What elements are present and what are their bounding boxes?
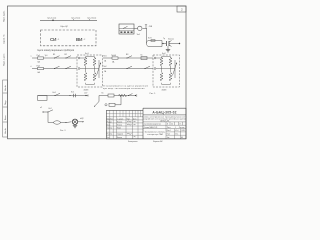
- svg-text:Кн: Кн: [102, 93, 104, 95]
- svg-text:Щит ЦС: Щит ЦС: [61, 26, 69, 28]
- svg-text:Тр: Тр: [163, 38, 165, 40]
- svg-text:В2: В2: [65, 54, 67, 56]
- svg-text:Кн2: Кн2: [49, 108, 52, 110]
- wire bell down to loop: [146, 29, 148, 44]
- svg-text:Подп.: Подп.: [5, 100, 7, 105]
- resistor R8: [169, 73, 172, 81]
- wire slant to lamp: [66, 121, 72, 124]
- junction dot B2: [66, 122, 67, 123]
- svg-text:Пр2: Пр2: [37, 65, 40, 67]
- svg-text:Пл1: Пл1: [103, 56, 107, 58]
- switch S7: [145, 68, 146, 69]
- resistor block BL2 dashed box: [153, 55, 180, 87]
- top rail wire: [32, 57, 77, 59]
- signature scribbles: [127, 121, 136, 137]
- right top rail wire: [103, 57, 153, 59]
- element M1: [108, 94, 114, 97]
- end arrow B: [82, 121, 84, 122]
- resistor R5: [160, 58, 163, 66]
- loop element: [38, 96, 48, 101]
- svg-text:Волков: Волков: [117, 137, 122, 139]
- svg-text:Иванов: Иванов: [117, 121, 122, 123]
- svg-text:Инв.1: Инв.1: [167, 130, 171, 132]
- svg-text:кЩУ: кЩУ: [80, 118, 84, 120]
- wire to lamp: [162, 43, 166, 45]
- svg-text:Пр.2: Пр.2: [167, 134, 170, 136]
- svg-text:02-4: 02-4: [175, 130, 178, 132]
- svg-text:Дата: Дата: [133, 118, 136, 120]
- lower branch circle: [105, 104, 107, 106]
- bus tick 3: [89, 19, 91, 20]
- svg-text:Цепи коммутационных приборов: Цепи коммутационных приборов: [38, 49, 75, 52]
- svg-text:Инв.№: Инв.№: [4, 128, 7, 134]
- end dot A: [85, 95, 86, 96]
- bus junction dot: [52, 20, 53, 21]
- wire box to bell: [134, 28, 137, 30]
- svg-text:В1: В1: [53, 54, 55, 56]
- svg-text:Пл2: Пл2: [103, 66, 107, 68]
- svg-text:Листов: Листов: [179, 127, 185, 129]
- change rows small dividers: [120, 110, 141, 116]
- parallel loop lower branch: [146, 41, 162, 47]
- svg-text:В3: В3: [126, 54, 128, 56]
- svg-text:Перв. прим.: Перв. прим.: [4, 10, 6, 22]
- left grid horizontals: [106, 114, 143, 135]
- lower branch junction: [121, 95, 122, 96]
- svg-text:Кн: Кн: [141, 54, 143, 56]
- ground stem: [167, 46, 169, 49]
- svg-text:2: 2: [181, 8, 183, 12]
- svg-text:Т.контр.: Т.контр.: [107, 128, 113, 130]
- end dot: [179, 43, 180, 44]
- svg-text:Рис. 5: Рис. 5: [150, 93, 157, 95]
- lamp HL1: [72, 119, 77, 124]
- svg-text:Бл1: Бл1: [85, 53, 89, 55]
- wire lamp right: [169, 43, 180, 45]
- BL1 slider arrow: [100, 63, 101, 65]
- stub up with tick: [145, 25, 147, 29]
- lamp bars: [166, 41, 168, 46]
- lamp ground hatch: [73, 125, 77, 127]
- svg-text:~24В: ~24В: [148, 26, 153, 28]
- capacitor element: [73, 94, 75, 97]
- svg-text:-1: -1: [58, 39, 61, 41]
- change table header texts: [107, 117, 137, 120]
- svg-text:Формат А2: Формат А2: [153, 140, 163, 143]
- stub B: [43, 111, 48, 113]
- svg-text:Петров: Петров: [117, 125, 122, 127]
- svg-text:Лист: Лист: [110, 118, 114, 120]
- end dot M: [135, 95, 136, 96]
- fuse oval: [54, 121, 61, 124]
- junction dot A: [70, 95, 71, 96]
- branch dot: [94, 106, 95, 107]
- left grid main verticals: [110, 110, 138, 138]
- svg-text:450Вт: 450Вт: [84, 89, 89, 91]
- wire bottom B: [48, 122, 66, 124]
- bus tick 2: [73, 19, 75, 20]
- BL1 terminal 1: [78, 57, 80, 59]
- switch S2: [66, 58, 67, 59]
- resistor block BL1 dashed box: [77, 55, 103, 87]
- svg-text:ВИ: ВИ: [76, 37, 82, 42]
- upper branch element: [151, 40, 155, 42]
- bus wire: [40, 19, 97, 21]
- BL2 slider arrow: [176, 63, 177, 65]
- control box internal wire: [119, 28, 134, 30]
- junction dot B1: [48, 112, 49, 113]
- svg-text:Кн1: Кн1: [71, 91, 74, 93]
- fuse F1: [38, 57, 44, 59]
- control box: [119, 24, 134, 34]
- svg-text:1:1: 1:1: [179, 123, 181, 125]
- svg-text:Инв.№: Инв.№: [4, 85, 7, 91]
- ground: [166, 50, 170, 52]
- left margin cells column: [3, 80, 8, 137]
- BL1 terminal 2: [78, 68, 80, 70]
- svg-text:кСУ: кСУ: [84, 93, 88, 95]
- svg-text:Пр2А: Пр2А: [111, 54, 116, 57]
- svg-text:Бл2: Бл2: [162, 53, 166, 55]
- svg-text:А2: А2: [181, 136, 183, 139]
- instrument panel dashed box: [41, 30, 97, 46]
- svg-text:1983: 1983: [181, 130, 185, 132]
- right subtable texts: [167, 130, 185, 139]
- svg-text:а: а: [31, 56, 33, 58]
- svg-text:Копировал: Копировал: [128, 141, 137, 143]
- svg-text:2А: 2А: [112, 60, 115, 63]
- svg-text:б: б: [31, 66, 32, 68]
- svg-text:Сидоров: Сидоров: [117, 134, 123, 136]
- svg-text:Схема МВ4-П-78: Схема МВ4-П-78: [144, 127, 157, 129]
- wire bell right: [143, 28, 147, 30]
- svg-text:№ докум.: № докум.: [117, 117, 124, 120]
- drawing frame: [8, 6, 187, 139]
- svg-text:Пров.: Пров.: [107, 125, 112, 127]
- svg-text:Б: Б: [167, 123, 168, 125]
- svg-text:1: 1: [175, 127, 176, 129]
- switch S4: [66, 68, 67, 69]
- svg-text:2А: 2А: [104, 60, 107, 63]
- svg-text:Зв1: Зв1: [137, 34, 141, 36]
- wire M: [99, 95, 136, 97]
- signature rows texts: [107, 121, 124, 138]
- switch S10: [128, 95, 129, 96]
- svg-text:ЧПУ-П-78: ЧПУ-П-78: [160, 121, 169, 123]
- sheet number box top right: [177, 6, 186, 12]
- svg-text:Лист: Лист: [167, 127, 171, 129]
- svg-text:а2: а2: [40, 107, 42, 109]
- svg-text:при авар. сигнализации отключе: при авар. сигнализации отключения: [103, 88, 145, 90]
- svg-text:450Вт: 450Вт: [162, 90, 167, 92]
- svg-text:СИ: СИ: [50, 37, 56, 42]
- wire drop: [47, 112, 49, 123]
- svg-text:Справ. №: Справ. №: [3, 34, 6, 44]
- wire A: [38, 95, 88, 97]
- BL2 terminal 1: [154, 57, 156, 59]
- svg-text:Устанавливаются на щитах управ: Устанавливаются на щитах управления: [103, 85, 148, 87]
- control box terminal row: [120, 32, 132, 33]
- parallel loop upper branch: [146, 41, 162, 44]
- svg-text:Подп. и дата: Подп. и дата: [4, 53, 6, 66]
- switch S8: [55, 95, 56, 96]
- svg-text:6А: 6А: [38, 71, 41, 74]
- branch wire down: [95, 96, 99, 107]
- svg-text:Пр1: Пр1: [37, 55, 40, 57]
- BL1 wiring: [80, 57, 101, 85]
- resistor R7: [169, 58, 172, 66]
- left margin cell texts: [4, 85, 7, 134]
- fuse F2: [38, 67, 44, 69]
- svg-text:А-БАЦ-305-02: А-БАЦ-305-02: [152, 110, 176, 114]
- control box switch: [123, 26, 128, 28]
- svg-text:КнП: КнП: [148, 38, 152, 40]
- series element K1: [141, 57, 147, 60]
- lit strip texts: [144, 123, 182, 125]
- svg-text:Взам.: Взам.: [5, 115, 7, 120]
- svg-text:станция цех ТАИ: станция цех ТАИ: [147, 133, 163, 136]
- right subtable lines: [166, 129, 186, 139]
- wire lamp right: [78, 121, 84, 123]
- sheet row: [143, 128, 186, 130]
- svg-text:Звонок: Звонок: [168, 38, 174, 40]
- bell HA1: [138, 26, 142, 30]
- svg-text:6А: 6А: [38, 60, 41, 63]
- svg-text:Балаковская электро-: Балаковская электро-: [145, 131, 166, 133]
- resistor R3: [93, 58, 96, 66]
- svg-text:Разраб.: Разраб.: [107, 121, 113, 123]
- svg-text:-2: -2: [84, 39, 87, 41]
- junction dot: [162, 43, 163, 44]
- svg-text:1 установка мощностью: 1 установка мощностью: [144, 123, 162, 125]
- title block outline: [106, 108, 186, 139]
- svg-text:Тр1: Тр1: [45, 55, 48, 57]
- switch S6: [127, 68, 128, 69]
- lit strip lines: [143, 121, 186, 123]
- svg-text:05-1: 05-1: [175, 134, 178, 136]
- svg-text:КнО: КнО: [53, 92, 57, 94]
- svg-text:ЦС-3ном: ЦС-3ном: [88, 18, 97, 20]
- code cell bottom line: [143, 114, 186, 116]
- bottom rail wire: [32, 68, 77, 70]
- resistor R1: [84, 58, 87, 66]
- svg-text:Подп.: Подп.: [126, 118, 131, 120]
- switch S5: [127, 58, 128, 59]
- svg-text:ЦС-2ном: ЦС-2ном: [72, 18, 81, 20]
- svg-text:ЦС-1ном: ЦС-1ном: [48, 18, 57, 20]
- switch S1: [54, 58, 55, 59]
- resistor R2: [84, 73, 87, 81]
- svg-text:2А: 2А: [104, 70, 107, 73]
- resistor R6: [160, 73, 163, 81]
- svg-text:Рис. 3: Рис. 3: [60, 130, 65, 132]
- svg-text:Юдин: Юдин: [117, 128, 121, 130]
- BL2 terminal 2: [154, 68, 156, 70]
- switch S3: [54, 68, 55, 69]
- resistor R4: [93, 73, 96, 81]
- svg-text:Н.контр.: Н.контр.: [107, 134, 113, 136]
- element M2: [119, 94, 127, 97]
- switch S9: [48, 110, 53, 112]
- right bottom rail wire: [103, 68, 153, 70]
- fuse F3: [112, 57, 118, 59]
- lower branch element: [109, 103, 115, 106]
- lower branch wire: [115, 96, 121, 105]
- BL2 wiring: [156, 57, 177, 85]
